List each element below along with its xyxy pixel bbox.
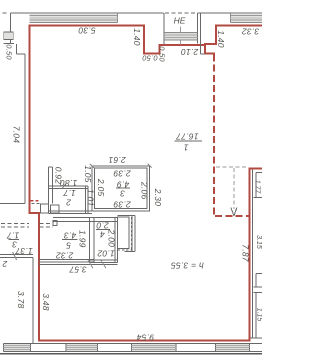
sill line bbox=[3, 43, 14, 45]
red wall bottom bbox=[38, 340, 251, 342]
window top-left band bbox=[30, 13, 118, 22]
red outer walls bbox=[29, 24, 262, 341]
neighbor right rooms bbox=[250, 169, 262, 338]
svg-text:16.77: 16.77 bbox=[176, 131, 199, 141]
red jog under loggia bbox=[204, 53, 215, 55]
bottom wall band bbox=[4, 343, 263, 351]
svg-text:5.30: 5.30 bbox=[78, 25, 96, 35]
svg-text:2: 2 bbox=[66, 197, 72, 207]
room 3 box outer bbox=[92, 166, 150, 211]
dashes to door bbox=[32, 203, 41, 205]
svg-text:2.06: 2.06 bbox=[139, 181, 149, 200]
corridor dashed rows right bbox=[40, 223, 54, 225]
room 4 right wall bbox=[114, 218, 116, 263]
red notch right vertical bbox=[158, 44, 160, 55]
svg-text:h = 3.55: h = 3.55 bbox=[171, 260, 204, 270]
neighbor left wall vertical bbox=[24, 54, 26, 204]
svg-text:2: 2 bbox=[2, 259, 8, 269]
corridor dashed rows left bbox=[1, 223, 29, 225]
svg-text:3.78: 3.78 bbox=[16, 291, 26, 309]
svg-text:5: 5 bbox=[66, 241, 71, 251]
red wall top right horizontal bbox=[215, 24, 262, 26]
room1 west wall bbox=[131, 216, 133, 252]
svg-text:1.99: 1.99 bbox=[77, 230, 87, 248]
svg-text:2.61: 2.61 bbox=[108, 155, 127, 165]
svg-text:2.39: 2.39 bbox=[113, 169, 132, 179]
svg-text:НЕ: НЕ bbox=[174, 16, 186, 26]
room5 corner notch bbox=[53, 221, 57, 226]
room 2 top wall bbox=[48, 185, 88, 187]
loggia outer right wall bbox=[200, 13, 202, 54]
svg-text:2.00: 2.00 bbox=[106, 229, 116, 248]
svg-text:0.50: 0.50 bbox=[158, 46, 167, 62]
svg-text:1.01: 1.01 bbox=[86, 189, 96, 207]
svg-text:3.57: 3.57 bbox=[69, 265, 87, 275]
entrance dashed path bbox=[216, 166, 248, 168]
svg-text:1.40: 1.40 bbox=[132, 28, 142, 46]
loggia window band bbox=[164, 26, 198, 44]
wall stub under loggia bbox=[201, 53, 205, 55]
rooms 2-3 bottom wall bbox=[48, 210, 92, 212]
svg-text:0.50: 0.50 bbox=[5, 44, 14, 60]
svg-text:0.50: 0.50 bbox=[142, 54, 158, 63]
loggia right wall bbox=[197, 13, 199, 44]
red short wall y43 bbox=[204, 43, 217, 45]
svg-text:3.32: 3.32 bbox=[242, 26, 260, 36]
boundary tick top-left bbox=[3, 12, 7, 14]
corner tick right bbox=[148, 164, 152, 168]
svg-text:1.05: 1.05 bbox=[83, 165, 93, 183]
svg-text:3: 3 bbox=[120, 188, 125, 198]
svg-text:7.04: 7.04 bbox=[11, 126, 21, 144]
loggia window center tick bbox=[180, 26, 182, 32]
room 3 box inner bbox=[95, 168, 148, 208]
red notch bottom bbox=[143, 53, 160, 55]
window fills bbox=[30, 14, 118, 22]
red wall right bbox=[248, 168, 250, 342]
red loggia bottom wall bbox=[158, 44, 205, 46]
neighbor wall bbox=[0, 252, 33, 343]
svg-text:1.80: 1.80 bbox=[60, 178, 78, 188]
svg-text:3.15: 3.15 bbox=[255, 235, 262, 249]
top line right of loggia bbox=[198, 12, 263, 14]
rooms 4-5 divider wall bbox=[89, 218, 91, 262]
bottom outer line bbox=[0, 353, 262, 354]
room 5 bottom wall bbox=[39, 258, 94, 260]
door squares bbox=[41, 204, 49, 213]
svg-text:1.15: 1.15 bbox=[256, 308, 262, 322]
red neighbor wall right horizontal bbox=[248, 167, 262, 169]
red wall left lower bbox=[38, 212, 40, 342]
band ticks bbox=[3, 343, 5, 351]
interior cluster bbox=[0, 164, 152, 268]
svg-text:1.40: 1.40 bbox=[216, 30, 226, 48]
shaft solid box bbox=[118, 217, 130, 249]
svg-text:2.10: 2.10 bbox=[181, 47, 200, 57]
svg-text:1.7: 1.7 bbox=[7, 231, 20, 241]
svg-text:4: 4 bbox=[100, 230, 105, 240]
loggia top dashed line bbox=[165, 12, 198, 14]
entrance arrow bbox=[231, 208, 234, 216]
svg-text:1.02: 1.02 bbox=[97, 249, 115, 259]
svg-text:1: 1 bbox=[183, 142, 188, 152]
red wall left upper bbox=[29, 24, 31, 213]
svg-text:2.30: 2.30 bbox=[153, 188, 163, 207]
svg-text:2.39: 2.39 bbox=[113, 200, 132, 210]
red wall right of loggia vertical bbox=[204, 44, 206, 54]
neighbor big room bottom wall bbox=[0, 202, 25, 204]
svg-text:3.48: 3.48 bbox=[41, 293, 51, 311]
boundary top line bbox=[11, 12, 164, 14]
red jog left wall bbox=[29, 212, 40, 214]
dim line 3.57 bbox=[39, 263, 118, 265]
red dashed vertical wall bbox=[213, 54, 215, 216]
window fills bottom bbox=[4, 346, 250, 350]
room 2 right wall bbox=[85, 186, 87, 214]
svg-text:4.3: 4.3 bbox=[64, 230, 77, 240]
rooms 4-5 top wall bbox=[53, 217, 118, 219]
red dashed horizontal wall bbox=[215, 215, 248, 217]
svg-text:2.32: 2.32 bbox=[56, 251, 75, 261]
window top-right band bbox=[231, 13, 263, 22]
red wall top right vertical bbox=[215, 24, 217, 45]
svg-text:1.77: 1.77 bbox=[254, 180, 261, 195]
loggia bbox=[164, 13, 205, 54]
boundary left vertical bbox=[10, 13, 12, 44]
wall stub 0.92 bbox=[47, 167, 49, 214]
boundary step bbox=[16, 44, 18, 54]
shaft dashed bbox=[130, 217, 132, 250]
corner tick left bbox=[90, 164, 94, 168]
red wall top bbox=[29, 24, 146, 26]
loggia left wall bbox=[163, 13, 165, 45]
svg-text:7.87: 7.87 bbox=[241, 244, 251, 262]
svg-text:2.05: 2.05 bbox=[96, 178, 106, 197]
gate hatch box bbox=[4, 32, 13, 40]
room 4 bottom wall bbox=[90, 259, 118, 261]
svg-text:1.7: 1.7 bbox=[63, 188, 76, 198]
svg-text:9.54: 9.54 bbox=[137, 332, 155, 342]
red dashed door opening left bbox=[31, 200, 41, 202]
red notch left vertical bbox=[143, 24, 145, 54]
neighbor wall vertical lower bbox=[32, 258, 34, 344]
